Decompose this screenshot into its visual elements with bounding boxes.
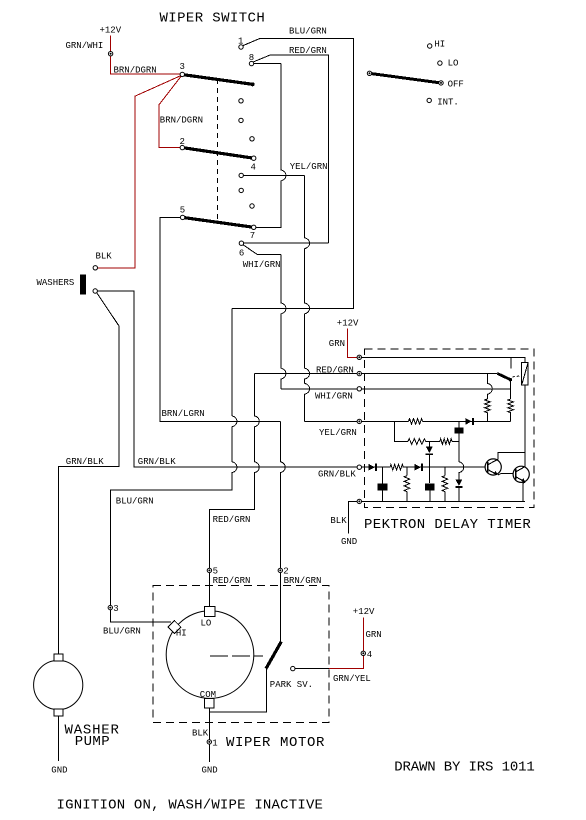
resistor R8 (on GRN/BLK rail): [390, 464, 403, 470]
svg-text:BRN/DGRN: BRN/DGRN: [114, 65, 157, 75]
svg-text:PARK SV.: PARK SV.: [270, 680, 313, 690]
svg-text:INT.: INT.: [437, 98, 459, 108]
Q1 collector to relay coil: [498, 385, 525, 466]
resistor R3 (on YEL/GRN rail): [409, 419, 423, 425]
svg-text:RED/GRN: RED/GRN: [213, 576, 251, 586]
resistor R5: [440, 439, 452, 445]
motor brush LO: [201, 607, 215, 629]
wire BLU/GRN contact1 to motor HI: [110, 27, 353, 623]
wiper bar contacts 3-top: [183, 75, 255, 87]
motor brush HI (diamond): [168, 621, 187, 639]
svg-text:HI: HI: [176, 629, 187, 639]
wire contact3 to washer switch (red): [98, 76, 181, 268]
svg-text:DRAWN BY IRS 1011: DRAWN BY IRS 1011: [394, 760, 534, 776]
timer terminal +12V: [357, 355, 361, 359]
contact 7: [252, 225, 256, 229]
rotary switch pivot: [367, 71, 371, 75]
resistor R1: [485, 374, 493, 422]
svg-text:+12V: +12V: [337, 319, 359, 329]
wire +12V feed to contact 3 (red): [111, 35, 180, 74]
rotary switch lever pointing to OFF: [372, 74, 440, 83]
motor body M1: [166, 611, 254, 699]
capacitor C2: [378, 467, 388, 501]
timer YEL/GRN internal rail: [362, 420, 511, 422]
svg-text:YEL/GRN: YEL/GRN: [290, 162, 328, 172]
diode D1 (on GRN/BLK rail): [368, 464, 375, 471]
svg-text:BLK: BLK: [96, 251, 113, 261]
washer switch upper contact: [93, 266, 97, 270]
resistor R2: [508, 380, 514, 422]
svg-text:PUMP: PUMP: [75, 734, 110, 750]
title WASHER PUMP: [65, 723, 120, 751]
timer terminal BLK/GND: [330, 499, 361, 526]
washer pump body M2: [34, 660, 83, 709]
Q1 emitter to Q2 base: [498, 474, 513, 475]
wiper bar contacts 2-4: [182, 148, 255, 161]
contact 6: [239, 241, 243, 245]
svg-text:HI: HI: [434, 39, 445, 49]
contact 3: [180, 72, 184, 76]
timer second row rail: [395, 421, 459, 441]
timer terminal GRN/BLK: [318, 465, 361, 480]
motor brush COM: [200, 690, 216, 708]
wire RED/GRN timer to motor LO: [209, 374, 357, 607]
timer terminal RED/GRN: [316, 365, 361, 375]
svg-text:+12V: +12V: [100, 26, 122, 36]
svg-text:PEKTRON DELAY TIMER: PEKTRON DELAY TIMER: [364, 517, 531, 533]
svg-text:LO: LO: [448, 58, 459, 68]
contact 2: [180, 145, 184, 149]
spare contact d: [239, 188, 243, 192]
svg-text:WHI/GRN: WHI/GRN: [315, 392, 353, 402]
svg-text:OFF: OFF: [448, 80, 464, 90]
spare contact b: [239, 118, 243, 122]
resistor R7: [442, 467, 448, 501]
svg-text:4: 4: [367, 650, 372, 660]
wire washer switch to washer pump: [58, 293, 119, 654]
diode D4 (pointing down): [426, 442, 433, 468]
svg-text:IGNITION ON, WASH/WIPE INACTIV: IGNITION ON, WASH/WIPE INACTIVE: [57, 797, 324, 813]
svg-text:5: 5: [180, 206, 185, 216]
spare contact a: [239, 99, 243, 103]
svg-text:BLU/GRN: BLU/GRN: [289, 27, 327, 37]
motor terminal 3: [103, 604, 141, 637]
wire contact3 to contact2 (red): [159, 76, 181, 148]
svg-text:GRN/WHI: GRN/WHI: [66, 41, 104, 51]
svg-text:GRN/BLK: GRN/BLK: [138, 457, 176, 467]
svg-text:BLK: BLK: [330, 516, 347, 526]
svg-text:1: 1: [212, 739, 217, 749]
timer terminal YEL/GRN: [319, 419, 361, 438]
svg-text:BRN/GRN: BRN/GRN: [284, 576, 322, 586]
capacitor C3: [425, 467, 434, 501]
wire park contact to terminal 4: [295, 668, 329, 670]
park switch fixed contact PARK SV.: [270, 666, 313, 690]
wire RED/GRN contact8 upper: [254, 46, 329, 243]
contact YEL/GRN feed: [239, 173, 243, 177]
timer GRN/BLK internal rail: [362, 466, 486, 468]
svg-text:6: 6: [239, 249, 244, 259]
wiper bar contacts 5-7: [183, 217, 256, 229]
contact 1: [239, 45, 243, 49]
resistor R6: [404, 467, 410, 501]
spare contact c: [250, 137, 254, 141]
park switch wire to COM: [209, 669, 266, 740]
wire GRN/BLK washer switch to timer: [66, 291, 357, 467]
wiper motor enclosure (dashed): [153, 586, 329, 723]
contact 8: [249, 61, 253, 65]
svg-text:3: 3: [180, 62, 185, 72]
svg-text:LO: LO: [201, 618, 212, 628]
wire BLK to GND (timer): [341, 501, 357, 547]
terminal 4 GRN/YEL: [333, 650, 372, 684]
rotary position LO: [438, 58, 459, 68]
washer switch lower contact: [93, 289, 97, 293]
motor terminal 2: [278, 567, 321, 586]
svg-text:WIPER MOTOR: WIPER MOTOR: [226, 735, 325, 751]
svg-text:3: 3: [113, 604, 118, 614]
svg-text:WHI/GRN: WHI/GRN: [243, 260, 281, 270]
svg-text:+12V: +12V: [353, 607, 375, 617]
relay K1 coil: [522, 362, 529, 385]
mechanical linkage (dashed): [216, 79, 218, 223]
transistor Q1: [485, 459, 501, 475]
svg-text:BLK: BLK: [192, 729, 209, 739]
resistor R4: [408, 439, 426, 445]
svg-text:7: 7: [250, 231, 255, 241]
motor COM to GND wire, label BLK: [192, 729, 218, 776]
svg-text:GRN: GRN: [329, 339, 345, 349]
motor terminal 5: [207, 567, 250, 586]
svg-text:GND: GND: [51, 766, 67, 776]
transistor Q2: [513, 466, 529, 482]
diode D2 (on GRN/BLK rail): [414, 464, 421, 471]
timer RED/GRN internal rail: [362, 373, 498, 375]
capacitor C1: [454, 421, 463, 441]
svg-text:GRN/BLK: GRN/BLK: [66, 457, 104, 467]
washer pump top brush: [54, 654, 63, 661]
svg-text:4: 4: [251, 162, 256, 172]
wire contact6 to RED/GRN: [244, 242, 329, 244]
washer pump bottom brush: [54, 709, 63, 716]
rotary position INT: [427, 98, 459, 108]
relay mechanical link (dashed): [512, 376, 521, 377]
svg-text:RED/GRN: RED/GRN: [289, 46, 327, 56]
diode D5 (pointing down) with hop: [455, 442, 464, 502]
spare contact e: [250, 204, 254, 208]
timer terminal WHI/GRN: [315, 387, 361, 402]
wire WHI/GRN contact6 to timer: [243, 245, 357, 389]
svg-text:GRN/BLK: GRN/BLK: [318, 470, 356, 480]
svg-text:BLU/GRN: BLU/GRN: [116, 497, 154, 507]
timer +12V rail: [362, 357, 525, 362]
wire GRN +12V to timer (red): [329, 329, 357, 358]
svg-text:GND: GND: [202, 766, 218, 776]
wire BRN/LGRN contact5 to motor terminal2: [160, 217, 285, 641]
Pektron delay timer enclosure (dashed): [364, 349, 533, 508]
relay K1 armature: [497, 373, 512, 381]
svg-text:BRN/LGRN: BRN/LGRN: [162, 409, 205, 419]
rotary position HI: [428, 39, 446, 49]
washer pump GND wire: [51, 716, 67, 776]
timer WHI/GRN internal rail: [362, 388, 511, 390]
terminal GRN/WHI: [66, 41, 113, 56]
motor armature axis (dash-dot): [210, 655, 263, 657]
wire YEL/GRN to timer: [244, 162, 358, 421]
svg-text:WASHERS: WASHERS: [37, 278, 75, 288]
timer ground rail: [362, 500, 525, 502]
svg-text:YEL/GRN: YEL/GRN: [319, 428, 357, 438]
washer switch body WASHERS: [37, 275, 86, 295]
rotary position OFF: [439, 80, 464, 90]
diode D3 (on YEL/GRN rail): [465, 418, 472, 425]
svg-text:GND: GND: [341, 537, 357, 547]
park switch arm: [266, 642, 281, 669]
contact 4: [252, 156, 256, 160]
svg-text:BRN/DGRN: BRN/DGRN: [160, 115, 203, 125]
svg-text:RED/GRN: RED/GRN: [213, 515, 251, 525]
svg-text:GRN: GRN: [366, 630, 382, 640]
Q2 emitter to ground: [523, 482, 525, 501]
contact 5: [180, 215, 184, 219]
svg-text:BLU/GRN: BLU/GRN: [103, 626, 141, 636]
wire link contact8 to contact7: [254, 64, 286, 228]
svg-text:RED/GRN: RED/GRN: [316, 365, 354, 375]
svg-text:GRN/YEL: GRN/YEL: [333, 674, 371, 684]
relay fixed contact stub: [510, 357, 512, 368]
svg-text:WIPER SWITCH: WIPER SWITCH: [160, 10, 266, 26]
svg-text:COM: COM: [200, 690, 216, 700]
